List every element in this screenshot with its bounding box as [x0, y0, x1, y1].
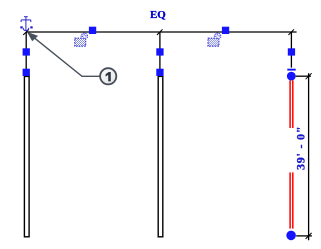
wall end drag dot bottom: [286, 231, 296, 241]
left wall: [24, 76, 29, 236]
witness grip left: [23, 48, 30, 55]
witness end bar (right): [287, 69, 295, 71]
middle witness line: [159, 32, 161, 75]
39'-0" dimension line (vertical): [308, 73, 310, 240]
EQ dimension line (horizontal): [26, 31, 297, 33]
grip square on segment 1 midpoint: [89, 27, 96, 34]
anchor symbol: [21, 17, 31, 31]
callout arrowhead: [27, 32, 38, 42]
tick at bottom witness of vertical dimension: [306, 233, 312, 239]
tick at top witness of vertical dimension: [306, 73, 312, 79]
middle wall: [158, 76, 163, 236]
svg-text:39' - 0": 39' - 0": [294, 127, 308, 171]
tick at middle witness: [157, 29, 163, 35]
callout leader line: [30, 35, 100, 77]
anchor dot left: [20, 26, 22, 28]
anchor dot right: [30, 26, 32, 28]
top witness of 39'-0" dimension: [296, 75, 311, 77]
wall end drag dot top: [287, 72, 296, 81]
wall end grip middle: [156, 69, 163, 76]
wall end grip left: [23, 69, 30, 76]
red selected wall (lower segment): [290, 172, 293, 228]
bottom witness of 39'-0" dimension: [296, 235, 312, 237]
red selected wall (upper segment): [290, 80, 293, 128]
tick at right witness: [288, 29, 294, 35]
callout number 1: [106, 72, 111, 81]
svg-text:EQ: EQ: [150, 9, 166, 21]
right witness line: [290, 32, 292, 68]
tick at left witness: [23, 29, 29, 35]
witness grip right: [288, 48, 295, 55]
witness grip middle: [156, 48, 163, 55]
left witness line: [25, 32, 27, 76]
grip square on segment 2 midpoint: [222, 27, 229, 34]
padlock 2 (second EQ segment): [208, 33, 221, 47]
padlock 1 (first EQ segment): [75, 33, 88, 47]
